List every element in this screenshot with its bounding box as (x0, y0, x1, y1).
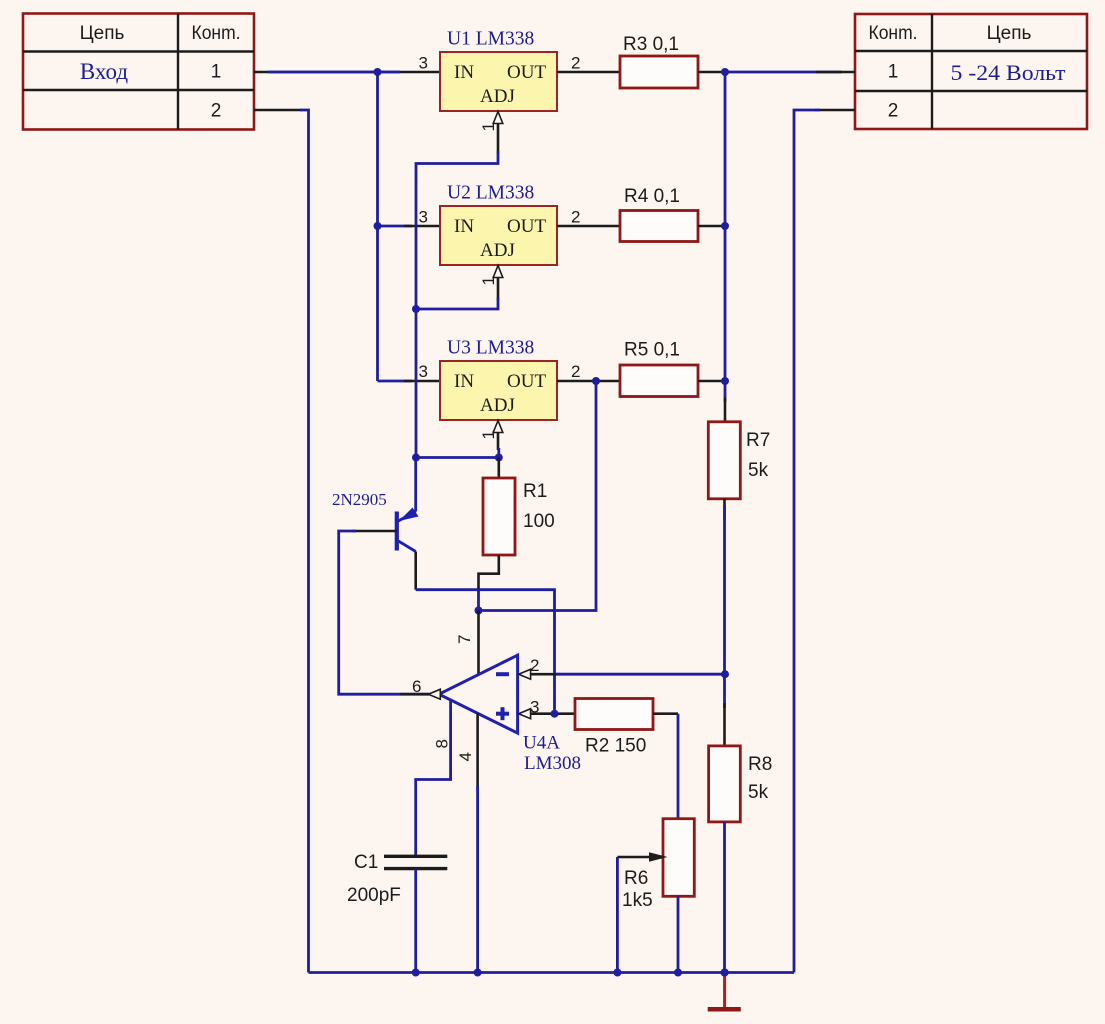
junction (613, 969, 621, 977)
op-amp U4A (439, 655, 518, 733)
wire adj bus U2-U3 (415, 309, 418, 458)
resistor R3 (620, 56, 698, 88)
wire U1 OUT to R3 (557, 71, 620, 74)
svg-text:5k: 5k (748, 460, 769, 481)
svg-text:100: 100 (523, 511, 555, 532)
svg-text:C1: C1 (354, 852, 378, 873)
svg-text:R4 0,1: R4 0,1 (624, 186, 680, 207)
svg-text:R3 0,1: R3 0,1 (623, 34, 679, 55)
svg-text:R5 0,1: R5 0,1 (624, 340, 680, 361)
capacitor C1 (384, 856, 447, 868)
svg-text:4: 4 (456, 752, 475, 761)
svg-text:2: 2 (211, 101, 222, 122)
svg-text:IN: IN (454, 216, 474, 237)
svg-text:2: 2 (888, 101, 899, 122)
junction (721, 969, 729, 977)
wire R7 to node (723, 505, 726, 674)
svg-text:Цепь: Цепь (987, 23, 1032, 44)
regulator U1 LM338 (440, 52, 557, 111)
svg-text:U1 LM338: U1 LM338 (447, 29, 534, 50)
wire base (339, 531, 430, 694)
svg-text:IN: IN (454, 62, 474, 83)
pin 6 output arrow (428, 689, 440, 699)
junction (721, 670, 729, 678)
pin 1 arrow U1 ADJ (493, 112, 503, 154)
wire U1 ADJ to adj bus (416, 151, 498, 309)
wire output bus vertical (724, 72, 727, 402)
svg-text:1: 1 (479, 276, 498, 285)
resistor R4 (620, 211, 698, 242)
transistor Q1 2N2905 (397, 508, 419, 552)
svg-text:2: 2 (571, 362, 580, 381)
svg-text:LM308: LM308 (524, 753, 581, 774)
ground (708, 973, 741, 1010)
junction (551, 710, 559, 718)
junction (475, 607, 483, 615)
svg-text:U4A: U4A (523, 733, 560, 754)
svg-text:200pF: 200pF (347, 885, 401, 906)
svg-text:5k: 5k (748, 782, 769, 803)
regulator U3 LM338 (440, 361, 557, 420)
wire input bus vertical (376, 72, 379, 381)
wire output pin2 vertical (794, 110, 855, 973)
svg-text:5 -24 Вольт: 5 -24 Вольт (951, 60, 1066, 85)
wire emitter to adj node (414, 458, 417, 512)
pin 2 input arrow (519, 669, 531, 679)
junction (721, 222, 729, 230)
svg-text:1: 1 (211, 62, 222, 83)
connector table right (855, 14, 1087, 129)
wire ground bus (309, 971, 795, 974)
svg-text:OUT: OUT (507, 62, 546, 83)
junction (412, 305, 420, 313)
svg-text:2: 2 (571, 54, 580, 73)
svg-text:Конm.: Конm. (192, 23, 241, 44)
junction (721, 969, 729, 977)
svg-text:R2 150: R2 150 (585, 736, 646, 757)
svg-text:U2 LM338: U2 LM338 (447, 183, 534, 204)
svg-text:OUT: OUT (507, 371, 546, 392)
wire U3 OUT to R5 (557, 380, 620, 383)
wire U2 ADJ to adj bus (416, 298, 498, 309)
wire opamp pin 4 to ground bus (476, 713, 479, 972)
wire U3 IN (378, 380, 441, 383)
junction (374, 68, 382, 76)
svg-text:3: 3 (419, 54, 428, 73)
resistor R8 (709, 674, 741, 972)
svg-text:2: 2 (571, 208, 580, 227)
svg-text:IN: IN (454, 371, 474, 392)
wire output pin1 (725, 71, 855, 74)
svg-text:Цепь: Цепь (80, 23, 125, 44)
potentiometer R6 (663, 819, 694, 973)
wire collector (416, 552, 555, 714)
connector table left (23, 14, 254, 130)
junction (721, 377, 729, 385)
wire input pin1 to U1 IN (254, 71, 440, 74)
wire U2 IN (378, 225, 441, 228)
junction (412, 969, 420, 977)
svg-text:U3 LM338: U3 LM338 (447, 338, 534, 359)
wire U3 ADJ node (416, 456, 499, 459)
junction (374, 222, 382, 230)
junction (721, 68, 729, 76)
wire R5 to output bus (698, 380, 725, 383)
svg-text:2N2905: 2N2905 (332, 490, 387, 509)
regulator U2 LM338 (440, 206, 557, 265)
svg-text:8: 8 (433, 739, 452, 748)
svg-text:1: 1 (479, 122, 498, 131)
svg-text:1: 1 (479, 430, 498, 439)
svg-text:R6: R6 (624, 868, 648, 889)
junction (674, 969, 682, 977)
junction (592, 377, 600, 385)
svg-text:ADJ: ADJ (480, 395, 515, 416)
wire opamp pin 3 to R2 (531, 712, 575, 715)
resistor R2 (575, 699, 653, 730)
wire U2 OUT to R4 (557, 225, 620, 228)
resistor R7 (708, 398, 740, 520)
svg-text:OUT: OUT (507, 216, 546, 237)
resistor R5 (620, 365, 698, 397)
resistor R1 (479, 458, 516, 593)
wire U3 OUT to opamp V+ (479, 381, 597, 611)
svg-text:Вход: Вход (80, 59, 128, 84)
wire opamp pin 8 to C1 (416, 700, 451, 857)
wire opamp pin 2 to bus (531, 673, 725, 676)
junction (474, 969, 482, 977)
wire opamp pin 7 (477, 611, 480, 675)
wire R2 to R6 top (653, 714, 678, 819)
svg-text:6: 6 (412, 677, 421, 696)
svg-text:1k5: 1k5 (622, 890, 653, 911)
pin 1 arrow U2 ADJ (493, 266, 503, 301)
junction (412, 454, 420, 462)
svg-text:1: 1 (888, 62, 899, 83)
svg-text:ADJ: ADJ (480, 86, 515, 107)
svg-text:2: 2 (530, 656, 539, 675)
svg-text:Конm.: Конm. (869, 23, 918, 44)
wire R1 bottom to node (477, 589, 480, 611)
R6 wiper arrow (617, 852, 667, 972)
junction (495, 454, 503, 462)
svg-text:3: 3 (419, 362, 428, 381)
svg-text:7: 7 (455, 635, 474, 644)
pin 1 arrow U3 ADJ (493, 421, 503, 458)
svg-text:3: 3 (419, 208, 428, 227)
svg-text:ADJ: ADJ (480, 240, 515, 261)
wire R3 to output bus (698, 71, 725, 74)
pin 3 input arrow (519, 709, 531, 719)
svg-text:R7: R7 (746, 430, 770, 451)
wire R4 to output bus (698, 225, 725, 228)
svg-text:R8: R8 (748, 754, 772, 775)
wire C1 to ground bus (414, 869, 417, 973)
svg-text:R1: R1 (523, 481, 547, 502)
wire input pin2 (254, 110, 309, 973)
